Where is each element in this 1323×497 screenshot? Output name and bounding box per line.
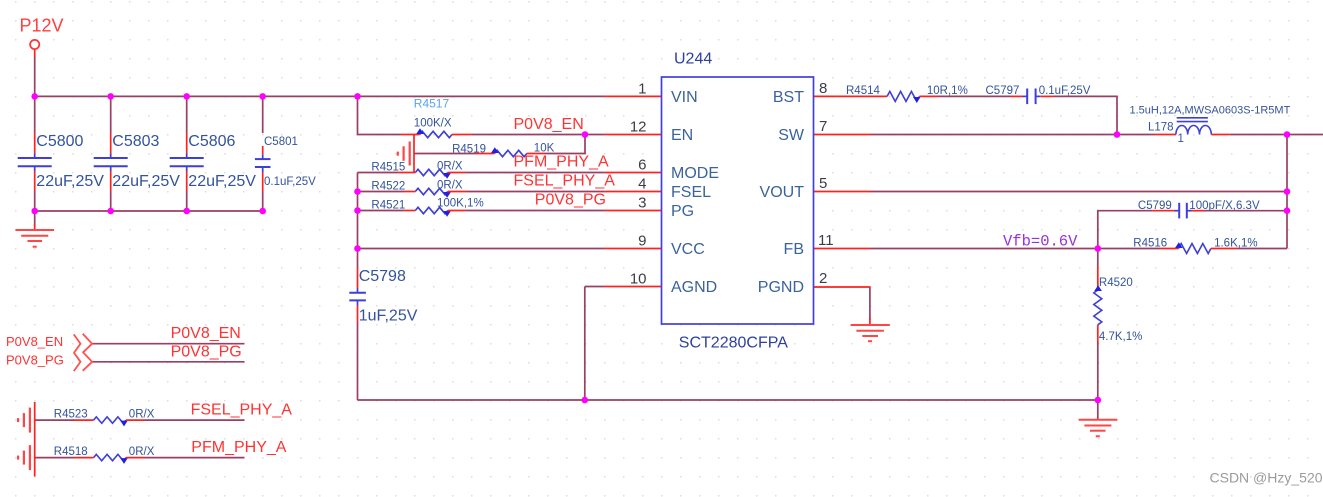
wire R4523 left segment: [35, 419, 74, 421]
node bus@R4517 branch: [354, 93, 361, 100]
wire L178 to output node: [1230, 134, 1323, 136]
svg-text:0.1uF,25V: 0.1uF,25V: [1039, 85, 1091, 97]
wire R4518 right segment PFM_PHY_A: [145, 457, 245, 459]
wire left NC rail vertical: [34, 402, 36, 477]
svg-text:6: 6: [638, 157, 646, 174]
svg-text:R4523: R4523: [54, 409, 88, 421]
svg-text:0R/X: 0R/X: [437, 180, 463, 192]
svg-text:100pF/X,6.3V: 100pF/X,6.3V: [1189, 200, 1260, 212]
resistor R4522: [404, 188, 466, 198]
svg-text:FSEL_PHY_A: FSEL_PHY_A: [514, 173, 616, 190]
svg-text:0.1uF,25V: 0.1uF,25V: [264, 176, 316, 188]
svg-text:Vfb=0.6V: Vfb=0.6V: [1003, 233, 1078, 251]
red pins and leads: [35, 49, 871, 476]
pin 5 VOUT stub: [814, 191, 871, 193]
svg-text:R4518: R4518: [54, 446, 88, 458]
wire AGND bottom rail: [358, 399, 1098, 401]
svg-text:R4522: R4522: [371, 181, 405, 193]
svg-text:EN: EN: [671, 127, 693, 144]
pin 3 PG stub: [605, 210, 662, 212]
wire R4520 top segment: [1097, 249, 1099, 267]
node EN tie vertical at R4517: [413, 135, 415, 173]
svg-text:4.7K,1%: 4.7K,1%: [1099, 331, 1142, 343]
node output@VOUT: [1284, 188, 1291, 195]
resistor R4515: [397, 169, 466, 179]
svg-text:R4521: R4521: [371, 200, 405, 212]
wire P12V drop: [34, 57, 36, 97]
no-connect fade bars at R4518: [18, 445, 30, 470]
node rail@C5806: [183, 208, 190, 215]
pin 9 VCC stub: [605, 248, 662, 250]
resistor R4514: [871, 91, 939, 102]
svg-text:P0V8_PG: P0V8_PG: [171, 343, 242, 360]
wire C5798 bottom lead to rail: [357, 322, 359, 400]
capacitor C5800: [18, 133, 52, 191]
svg-text:VCC: VCC: [671, 241, 705, 258]
svg-text:2: 2: [819, 270, 827, 287]
node AGND rail@AGND: [582, 397, 589, 404]
svg-text:10R,1%: 10R,1%: [927, 85, 968, 97]
wires (maroon): [35, 57, 1323, 458]
wire C5800 top lead: [34, 96, 36, 133]
svg-text:1uF,25V: 1uF,25V: [359, 308, 418, 325]
svg-text:PFM_PHY_A: PFM_PHY_A: [191, 439, 286, 456]
wire VCC row to pin 9: [358, 248, 605, 250]
node bus@C5803: [107, 93, 114, 100]
wire C5801 top lead: [262, 96, 264, 133]
svg-text:4: 4: [638, 176, 646, 193]
svg-text:PGND: PGND: [758, 279, 804, 296]
svg-text:C5797: C5797: [986, 85, 1020, 97]
svg-text:CSDN @Hzy_520: CSDN @Hzy_520: [1210, 470, 1323, 486]
wire C5803 top lead: [110, 96, 112, 133]
svg-text:P0V8_EN: P0V8_EN: [6, 334, 63, 349]
resistor R4523: [74, 417, 145, 427]
pin 1 VIN stub: [605, 95, 662, 97]
resistor R4519: [476, 147, 545, 157]
svg-text:C5798: C5798: [359, 268, 406, 285]
no-connect fade bars at R4519: [398, 142, 410, 166]
node AGND rail@R4520: [1095, 397, 1102, 404]
pin 2 PGND stub: [814, 286, 871, 288]
svg-text:BST: BST: [773, 89, 804, 106]
svg-text:0R/X: 0R/X: [129, 409, 155, 421]
node rail@C5803: [107, 208, 114, 215]
pin 11 FB stub: [814, 248, 871, 250]
svg-text:100K,1%: 100K,1%: [437, 198, 484, 210]
svg-text:22uF,25V: 22uF,25V: [112, 173, 180, 190]
wire VOUT row: [871, 191, 1288, 193]
svg-text:PG: PG: [671, 203, 694, 220]
svg-text:12: 12: [630, 119, 647, 136]
wire SW row to L178: [871, 134, 1156, 136]
svg-text:MODE: MODE: [671, 165, 719, 182]
node EN junction: [582, 131, 589, 138]
svg-text:L178: L178: [1148, 122, 1174, 134]
svg-text:R4519: R4519: [452, 144, 486, 156]
svg-text:U244: U244: [674, 51, 712, 68]
wire C5797 to SW corner: [1054, 96, 1117, 134]
wire R4518 left segment: [35, 457, 74, 459]
svg-text:FSEL_PHY_A: FSEL_PHY_A: [191, 402, 293, 419]
wire R4520 bottom segment: [1097, 342, 1099, 400]
svg-text:C5801: C5801: [264, 136, 298, 148]
wire C5800 bottom lead: [34, 191, 36, 211]
pin 8 BST stub: [814, 95, 871, 97]
node left rail@PG: [354, 207, 361, 214]
wire FSEL row right segment to pin 4: [466, 191, 605, 193]
inductor L178: [1155, 118, 1230, 135]
wire C5806 top lead: [186, 96, 188, 133]
svg-text:P0V8_EN: P0V8_EN: [514, 116, 584, 133]
no-connect fade bars at R4523: [18, 408, 30, 433]
wire R4516 to output rail: [1237, 248, 1287, 250]
svg-text:C5800: C5800: [36, 133, 83, 150]
svg-text:22uF,25V: 22uF,25V: [188, 173, 256, 190]
svg-text:100K/X: 100K/X: [414, 118, 452, 130]
wire C5803 bottom lead: [110, 191, 112, 211]
op-amp U1 IC body U244: [662, 77, 814, 324]
ground under R4520: [1079, 400, 1118, 436]
wire BST R4514 to C5797: [939, 95, 1011, 97]
node bus@P12V: [31, 93, 38, 100]
node bus@C5806: [183, 93, 190, 100]
node left rail@FSEL: [354, 188, 361, 195]
svg-text:VOUT: VOUT: [760, 184, 805, 201]
wire FSEL row left segment: [358, 191, 405, 193]
port chevron P0V8_PG: [74, 352, 92, 371]
port P12V circle: [30, 40, 39, 49]
node bus@C5801: [259, 93, 266, 100]
wire R4519 left to NC stub: [414, 153, 476, 155]
wire AGND pin 10 segment: [585, 286, 605, 288]
svg-text:8: 8: [819, 80, 827, 97]
wire AGND drop: [584, 287, 586, 401]
node left rail@VCC: [354, 245, 361, 252]
wire output vertical rail: [1286, 135, 1288, 249]
wire MODE row left segment: [358, 172, 398, 174]
svg-text:R4520: R4520: [1099, 277, 1133, 289]
svg-text:C5803: C5803: [112, 133, 159, 150]
capacitor C5801: [255, 146, 271, 191]
svg-text:1: 1: [1178, 133, 1184, 145]
svg-text:C5806: C5806: [188, 133, 235, 150]
wire EN junction drop to R4519: [545, 135, 585, 154]
svg-text:22uF,25V: 22uF,25V: [36, 173, 104, 190]
capacitor C5799: [1153, 203, 1205, 219]
node FB junction: [1095, 245, 1102, 252]
node output@C5799: [1284, 207, 1291, 214]
svg-text:FSEL: FSEL: [671, 184, 711, 201]
wire bus to R4517 vertical: [358, 96, 402, 134]
resistor R4520 (vertical): [1094, 266, 1102, 342]
wire port P0V8_PG: [92, 361, 245, 363]
wire PGND ground stub: [869, 318, 871, 325]
svg-text:PFM_PHY_A: PFM_PHY_A: [514, 154, 609, 171]
svg-text:1.6K,1%: 1.6K,1%: [1214, 238, 1257, 250]
resistor R4518: [74, 454, 145, 464]
node rail@C5801: [259, 208, 266, 215]
resistor R4521: [404, 207, 466, 217]
svg-text:R4517: R4517: [414, 97, 450, 111]
resistor R4516: [1160, 242, 1237, 253]
svg-text:11: 11: [818, 232, 834, 249]
wire FB row: [871, 248, 1161, 250]
svg-text:VIN: VIN: [671, 89, 698, 106]
svg-text:FB: FB: [784, 241, 804, 258]
wire ground drop below rail: [34, 211, 36, 226]
svg-text:AGND: AGND: [671, 279, 717, 296]
pin 10 AGND stub: [605, 286, 662, 288]
capacitor C5806: [170, 133, 204, 191]
pin 7 SW stub: [814, 134, 871, 136]
svg-text:SW: SW: [778, 127, 805, 144]
wire C5801 bottom lead: [262, 191, 264, 211]
svg-text:C5799: C5799: [1138, 200, 1172, 212]
wire R4523 right segment FSEL_PHY_A: [145, 419, 245, 421]
svg-text:R4514: R4514: [846, 85, 880, 97]
port chevron P0V8_EN: [74, 334, 92, 353]
wire top bus P12V to VIN: [35, 95, 605, 97]
svg-text:1: 1: [638, 81, 646, 98]
capacitor C5797: [1010, 89, 1054, 105]
wire capacitor bottom rail: [35, 210, 263, 212]
svg-text:9: 9: [638, 233, 646, 250]
wire C5799 branch vertical: [1098, 211, 1153, 249]
svg-text:0R/X: 0R/X: [437, 161, 463, 173]
svg-text:P0V8_PG: P0V8_PG: [535, 192, 606, 209]
ground PGND: [851, 325, 890, 341]
wire PG row left segment: [358, 210, 405, 212]
svg-text:P12V: P12V: [20, 16, 64, 36]
resistor R4517: [401, 128, 472, 138]
wire C5806 bottom lead: [186, 191, 188, 211]
ground under C5800: [16, 224, 55, 247]
node rail@C5800: [31, 208, 38, 215]
wire MODE row right segment to pin 6: [466, 172, 605, 174]
wire left vertical VCC rail: [357, 173, 359, 270]
svg-text:R4515: R4515: [371, 162, 405, 174]
pin 4 FSEL stub: [605, 191, 662, 193]
svg-text:P0V8_EN: P0V8_EN: [171, 325, 241, 342]
wire PG row right segment to pin 3: [466, 210, 605, 212]
svg-text:1.5uH,12A,MWSA0603S-1R5MT: 1.5uH,12A,MWSA0603S-1R5MT: [1130, 105, 1291, 117]
wire R4517 to EN junction: [472, 134, 605, 136]
wire C5799 to output rail: [1205, 210, 1287, 212]
wire PGND drop: [869, 287, 871, 320]
capacitor C5798: [349, 269, 366, 323]
svg-text:10: 10: [630, 271, 647, 288]
svg-text:SCT2280CFPA: SCT2280CFPA: [679, 335, 788, 352]
wire port P0V8_EN: [92, 343, 245, 345]
svg-text:R4516: R4516: [1133, 238, 1167, 250]
node SW@output: [1284, 131, 1291, 138]
port P12V stub: [34, 49, 36, 57]
svg-text:P0V8_PG: P0V8_PG: [6, 352, 64, 367]
svg-text:3: 3: [638, 195, 646, 212]
pin 12 EN stub: [605, 134, 662, 136]
svg-text:7: 7: [819, 118, 827, 135]
pin 6 MODE stub: [605, 172, 662, 174]
svg-text:5: 5: [819, 175, 827, 192]
node SW@C5797: [1114, 131, 1121, 138]
svg-text:0R/X: 0R/X: [129, 446, 155, 458]
capacitor C5803: [94, 133, 128, 191]
